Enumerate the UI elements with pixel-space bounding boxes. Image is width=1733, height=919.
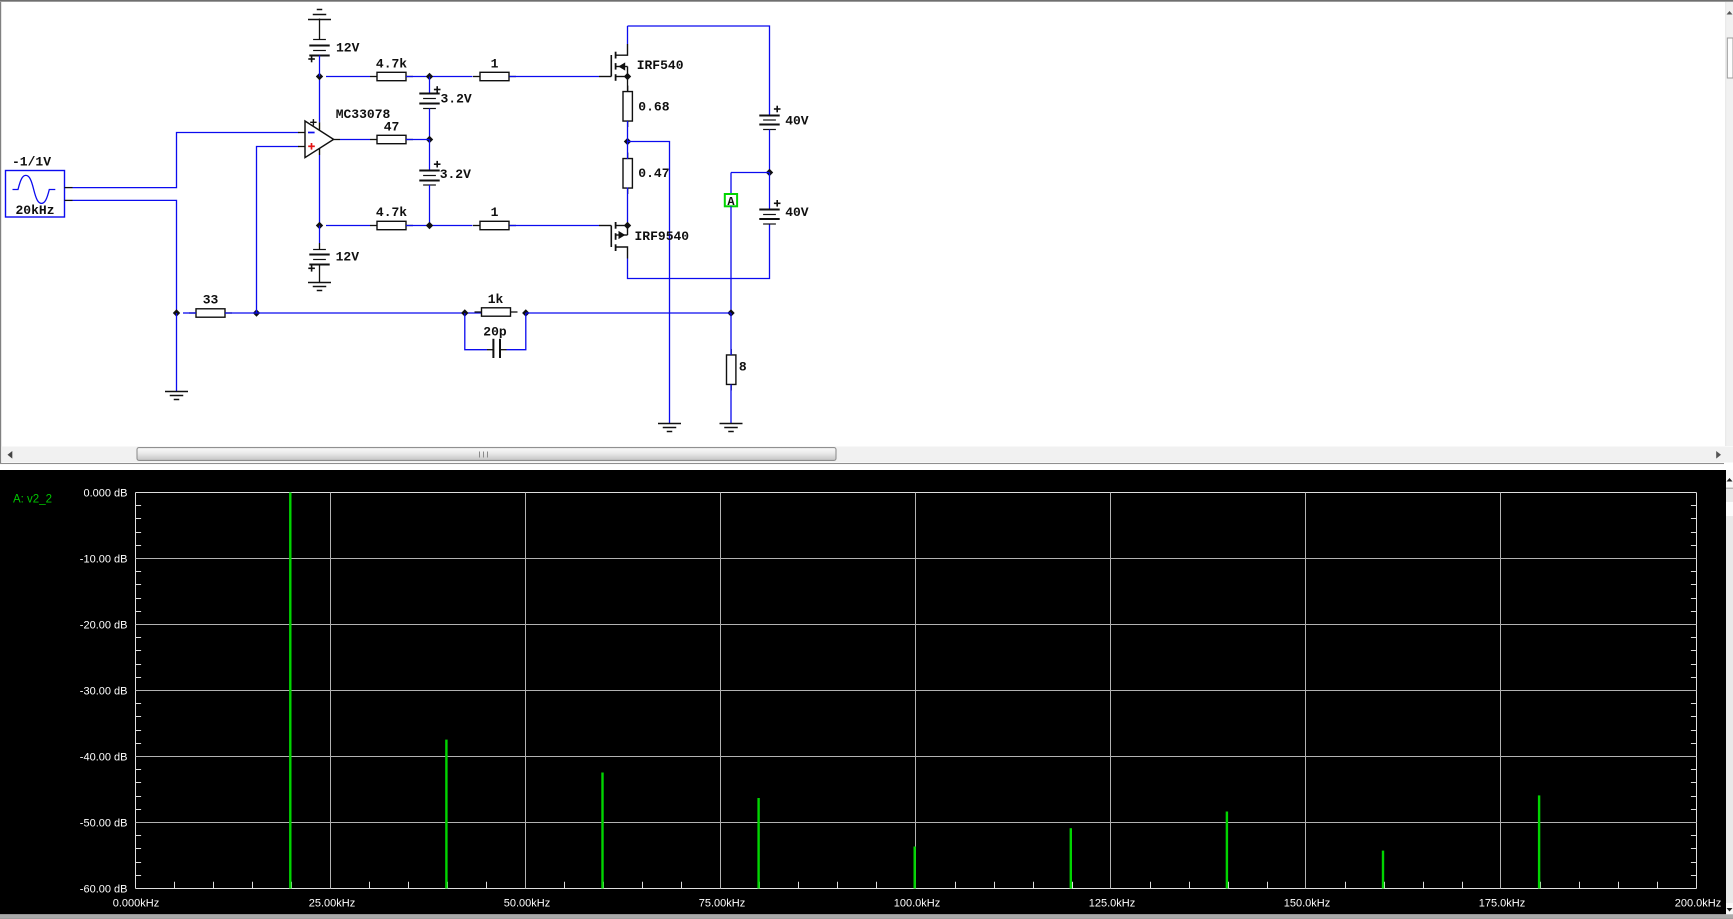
wire: V+ rail [326, 76, 370, 78]
svg-text:3.2V: 3.2V [441, 92, 472, 107]
ground (above V1, inverted) [308, 10, 331, 20]
wire: op-amp output to R5 [340, 139, 370, 141]
svg-text:-50.00 dB: -50.00 dB [80, 818, 128, 830]
ground (left, under source) [165, 392, 188, 400]
transistor Q1 IRF540 [599, 44, 684, 92]
wire: R1 to R3 [406, 76, 473, 78]
svg-text:50.00kHz: 50.00kHz [504, 897, 550, 909]
wire: R5 to bias node [406, 139, 430, 141]
svg-text:0.000kHz: 0.000kHz [113, 897, 159, 909]
bottom window strip [0, 914, 1733, 918]
wire resistor 33 to 1k resistor [225, 312, 481, 314]
ground (under output midpoint run) [658, 424, 681, 432]
svg-text:3.2V: 3.2V [440, 167, 471, 182]
svg-text:175.0kHz: 175.0kHz [1479, 897, 1525, 909]
schematic canvas [0, 2, 1733, 446]
resistor R8 1k (feedback) [475, 292, 518, 316]
battery V2 12V (bottom) [308, 226, 359, 283]
svg-text:-1/1V: -1/1V [12, 154, 51, 169]
node: IRF9540 source [624, 222, 631, 229]
wire: R3 to IRF540 gate [510, 76, 600, 78]
svg-text:-60.00 dB: -60.00 dB [80, 884, 128, 896]
plot vertical scrollbar [1726, 470, 1733, 914]
svg-text:-10.00 dB: -10.00 dB [80, 554, 128, 566]
window top border [0, 0, 1733, 1]
svg-text:MC33078: MC33078 [336, 107, 391, 122]
node: top bias junction [426, 73, 433, 80]
svg-text:20kHz: 20kHz [16, 203, 55, 218]
node: feedback left [461, 309, 468, 316]
svg-text:-20.00 dB: -20.00 dB [80, 620, 128, 632]
resistor R2 4.7k (bottom) [370, 205, 413, 230]
svg-text:100.0kHz: 100.0kHz [894, 897, 940, 909]
schematic vertical scrollbar [1726, 2, 1733, 446]
svg-text:12V: 12V [336, 250, 360, 265]
svg-text:IRF540: IRF540 [637, 58, 684, 73]
node: IRF540 source [624, 73, 631, 80]
wire: midpoint to right vertical [628, 142, 670, 424]
node: feedback right [522, 309, 529, 316]
wire: R9 to ground [730, 385, 732, 424]
wire VG1+ to inverting input [73, 133, 299, 188]
svg-text:200.0kHz: 200.0kHz [1675, 897, 1721, 909]
svg-text:47: 47 [384, 119, 400, 134]
wire VG1- down to ground node [73, 200, 177, 313]
wire: V- rail [326, 225, 370, 227]
battery V5 40V (upper) [759, 106, 809, 173]
svg-text:A: v2_2: A: v2_2 [13, 494, 52, 506]
svg-text:1: 1 [491, 56, 499, 71]
node: bottom bias junction [426, 222, 433, 229]
y-axis minor ticks [136, 506, 1697, 876]
svg-text:33: 33 [203, 292, 219, 307]
wire: R4 to IRF9540 gate [510, 225, 600, 227]
node: feedback tap junction [253, 309, 260, 316]
node: V- rail junction [316, 222, 323, 229]
wire: top loop to battery 40V [628, 26, 770, 116]
vertical gridlines [331, 493, 1501, 889]
transistor Q2 IRF9540 [599, 222, 689, 259]
svg-text:12V: 12V [336, 41, 360, 56]
wire rail into resistor 33 [183, 312, 196, 314]
trace A: v2_2 (FFT spectrum) [289, 492, 1540, 888]
node: V+ rail junction [316, 73, 323, 80]
battery V3 3.2V (upper bias) [419, 77, 472, 140]
resistor R7 0.47 [623, 153, 670, 195]
battery V4 3.2V (lower bias) [419, 140, 471, 226]
svg-text:4.7k: 4.7k [376, 205, 407, 220]
x-axis labels [113, 897, 1721, 909]
capacitor C1 20p [465, 313, 526, 358]
resistor R1 4.7k (top) [370, 56, 413, 80]
svg-text:IRF9540: IRF9540 [635, 229, 690, 244]
svg-text:-40.00 dB: -40.00 dB [80, 752, 128, 764]
resistor 33 [189, 292, 232, 317]
svg-text:75.00kHz: 75.00kHz [699, 897, 745, 909]
svg-text:40V: 40V [785, 114, 809, 129]
wire: positive supply rail (V+) [319, 77, 321, 123]
svg-text:1k: 1k [488, 292, 504, 307]
voltage source VG1 -1/1V 20kHz [6, 154, 73, 218]
svg-text:1: 1 [491, 205, 499, 220]
node: supply midpoint [766, 169, 773, 176]
svg-text:150.0kHz: 150.0kHz [1284, 897, 1330, 909]
resistor R5 47 (op-amp output) [370, 119, 413, 143]
battery V6 40V (lower) [759, 173, 809, 225]
plot background [0, 470, 1726, 914]
svg-text:20p: 20p [483, 325, 507, 340]
plot frame [136, 493, 1697, 889]
op-amp U1 MC33078 [298, 107, 391, 157]
wire: load node to R9 [730, 313, 732, 355]
node: output midpoint [624, 138, 631, 145]
x-axis minor ticks [175, 882, 1658, 889]
resistor R3 1 (top gate stopper) [473, 56, 516, 80]
wire: midpoint to R7 [627, 142, 629, 160]
horizontal gridlines [136, 559, 1697, 823]
wire: feedback right to load node [526, 312, 731, 314]
ground (under V2) [308, 283, 331, 291]
svg-text:0.47: 0.47 [638, 166, 669, 181]
horizontal scrollbar [1, 447, 1733, 463]
node: source ground junction [173, 309, 180, 316]
wire node to ground [176, 313, 178, 391]
wire: negative supply (V-) [319, 155, 321, 226]
ground (under load) [720, 424, 743, 432]
battery V1 12V (top) [308, 19, 359, 77]
node: load junction [727, 309, 734, 316]
wire: feedback tap up to non-inverting input [257, 147, 299, 314]
wire: R2 to R4 [406, 225, 473, 227]
svg-text:25.00kHz: 25.00kHz [309, 897, 355, 909]
resistor R9 8 (load) [727, 349, 747, 391]
svg-text:-30.00 dB: -30.00 dB [80, 686, 128, 698]
svg-text:125.0kHz: 125.0kHz [1089, 897, 1135, 909]
svg-text:0.000 dB: 0.000 dB [83, 488, 127, 500]
svg-text:40V: 40V [785, 205, 809, 220]
resistor R4 1 (bottom gate stopper) [473, 205, 516, 230]
wire: R6 to midpoint node [627, 121, 629, 142]
svg-text:0.68: 0.68 [638, 99, 669, 114]
resistor R6 0.68 [623, 86, 670, 128]
ammeter A (output current probe) [725, 173, 770, 314]
y-axis labels [80, 488, 128, 896]
svg-text:4.7k: 4.7k [376, 56, 407, 71]
node: op-amp output junction [426, 136, 433, 143]
wire: R7 to IRF9540 source [627, 188, 629, 226]
wire: drain to top loop [627, 26, 629, 44]
svg-text:8: 8 [739, 359, 747, 374]
wire: IRF9540 drain to bottom loop [628, 224, 770, 279]
window divider [0, 463, 1724, 464]
